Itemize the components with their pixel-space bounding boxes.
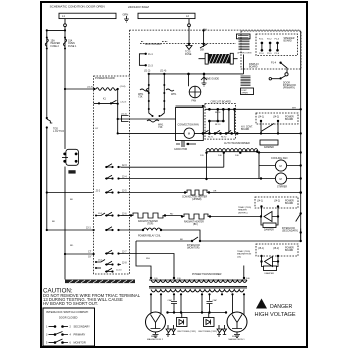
bottom coil	[152, 115, 154, 117]
svg-text:FUSE 1: FUSE 1	[68, 45, 77, 48]
svg-text:240/120V 60HZ: 240/120V 60HZ	[128, 5, 149, 9]
svg-text:POWER TRANSFORMER: POWER TRANSFORMER	[192, 273, 222, 276]
svg-text:(UPPER): (UPPER)	[192, 199, 202, 201]
svg-text:INTERLOCK SWITCH COMPATI: INTERLOCK SWITCH COMPATI	[46, 310, 88, 314]
svg-text:FRONT: FRONT	[232, 336, 240, 338]
svg-text:!: !	[260, 304, 262, 310]
svg-text:RLY3: RLY3	[215, 124, 221, 126]
transformer primary winding	[151, 280, 247, 282]
svg-text:P2-2: P2-2	[267, 38, 272, 40]
secondary tap dots	[150, 293, 152, 295]
heater bar hatched	[65, 280, 135, 284]
relay coil winding	[96, 88, 117, 91]
circuit board dashed box	[205, 104, 236, 140]
svg-text:FUSE 2: FUSE 2	[51, 45, 60, 48]
lower switch stack 1	[111, 214, 113, 216]
junction on top edge	[202, 29, 204, 31]
svg-text:RLY2: RLY2	[221, 137, 227, 139]
right bus lower	[300, 233, 302, 242]
svg-text:CT: CT	[88, 251, 92, 254]
svg-text:(J4-2): (J4-2)	[273, 117, 279, 119]
svg-text:H.V. CONT.: H.V. CONT.	[241, 127, 253, 129]
svg-text:WH: WH	[146, 258, 150, 260]
radiant heater top	[121, 215, 131, 217]
row1 relay dots	[208, 108, 211, 111]
svg-text:TRIAC (TRD): TRIAC (TRD)	[238, 206, 251, 209]
fuse HEATER FUSE 2	[46, 37, 48, 39]
svg-text:SECONDARY: SECONDARY	[74, 324, 91, 328]
svg-text:DAMPER: DAMPER	[265, 272, 275, 275]
svg-text:M: M	[280, 177, 282, 181]
svg-text:REAR: REAR	[151, 335, 157, 338]
transformer primary top line	[149, 279, 247, 281]
right inner column wire	[117, 89, 119, 133]
left bus wire 2 (L1b)	[64, 30, 66, 149]
power board dashed box	[94, 76, 130, 274]
radiant heater rear	[165, 215, 182, 217]
ground magnetron 1	[234, 332, 240, 338]
svg-text:P2-1: P2-1	[259, 38, 264, 40]
svg-text:SPEAKER: SPEAKER	[284, 37, 295, 40]
door interlock primary switch	[281, 63, 287, 73]
verticals	[209, 109, 234, 133]
svg-text:BOARD: BOARD	[284, 40, 293, 43]
svg-text:(TOP): (TOP)	[147, 224, 153, 226]
svg-text:P2-5: P2-5	[267, 53, 272, 55]
svg-text:DANGER: DANGER	[270, 304, 292, 310]
svg-text:HEATER: HEATER	[238, 209, 247, 212]
connector J1-7 bracket	[122, 116, 129, 122]
connector circle on L1 lead	[64, 24, 67, 27]
long wire row y132	[118, 132, 301, 134]
wire top jumper	[47, 29, 65, 31]
svg-text:WH: WH	[203, 29, 207, 31]
junction	[46, 29, 48, 31]
svg-text:CONVECTION FAN: CONVECTION FAN	[178, 124, 200, 127]
relay contacts under J4 box	[261, 121, 278, 133]
fuse OVEN FUSE 1	[64, 37, 66, 39]
wire from autotransformer to right bus	[257, 152, 301, 154]
connector J1-1	[145, 53, 147, 55]
danger triangle	[256, 299, 267, 309]
svg-text:RADIANT HEATER: RADIANT HEATER	[184, 221, 204, 224]
svg-text:MONITOR: MONITOR	[74, 340, 86, 344]
svg-text:INTERLOCK: INTERLOCK	[283, 85, 297, 87]
svg-text:L.OV TCO: L.OV TCO	[53, 130, 64, 133]
terminal block L1	[59, 13, 116, 18]
svg-text:FUSE: FUSE	[185, 53, 192, 56]
wire left bus to J2-1	[47, 229, 94, 231]
svg-text:DOOR CLOSED: DOOR CLOSED	[59, 317, 78, 320]
svg-text:RLY1: RLY1	[208, 137, 214, 139]
svg-text:P2-6: P2-6	[275, 53, 280, 55]
power board dashed box 2	[255, 197, 298, 208]
coil right	[166, 89, 174, 91]
bus L1b continues	[64, 167, 66, 280]
svg-text:STIRRER: STIRRER	[277, 187, 287, 189]
power board inner dashed box right	[256, 113, 298, 124]
wire L1 down	[64, 19, 66, 31]
capacitor left	[176, 141, 196, 147]
convection heater element	[185, 190, 209, 195]
monitor line	[136, 240, 301, 242]
svg-text:MAIN BOARD: MAIN BOARD	[145, 42, 162, 46]
border frame	[41, 2, 307, 347]
hv bus	[167, 312, 227, 314]
selector contacts 3	[111, 191, 113, 193]
selector contacts 1	[111, 166, 113, 168]
damper box	[260, 140, 278, 145]
svg-text:WH: WH	[292, 107, 296, 109]
thermistor	[202, 43, 204, 45]
svg-text:(J1-7): (J1-7)	[121, 102, 127, 104]
svg-text:HV BOARD TO SHORT OUT.: HV BOARD TO SHORT OUT.	[43, 301, 98, 306]
svg-text:(J5-1): (J5-1)	[258, 248, 264, 250]
svg-text:P1-4: P1-4	[271, 62, 277, 65]
svg-text:INTERLOCK: INTERLOCK	[187, 245, 201, 247]
svg-text:J2-3: J2-3	[122, 165, 127, 167]
svg-text:J2-8: J2-8	[122, 263, 127, 265]
filament leads magnetron 1	[233, 294, 245, 314]
svg-text:MAGNETRON 2: MAGNETRON 2	[147, 338, 164, 341]
thermal cutout TCO in left bus	[46, 117, 48, 119]
left bus wire (L1a)	[46, 30, 48, 118]
row2	[209, 120, 223, 122]
svg-text:POWER: POWER	[285, 201, 294, 203]
svg-text:CIRCUIT BOARD: CIRCUIT BOARD	[211, 100, 232, 104]
svg-text:(J4-2): (J4-2)	[274, 201, 280, 203]
autotransformer base wire	[206, 151, 257, 153]
display board dashed box	[241, 31, 301, 69]
svg-text:BU: BU	[245, 151, 248, 153]
svg-text:GRN: GRN	[123, 13, 129, 17]
main board dashed left edge	[129, 30, 131, 76]
svg-text:OR: OR	[213, 191, 217, 193]
rectifier box CW2	[208, 313, 210, 318]
svg-text:AUTO TRANSFORMER: AUTO TRANSFORMER	[224, 142, 250, 145]
svg-text:SCHEMATIC CONDITION: DOOR OPEN: SCHEMATIC CONDITION: DOOR OPEN	[50, 5, 105, 9]
svg-text:J2-10: J2-10	[116, 270, 122, 272]
blower motor	[275, 173, 286, 184]
wire net 13 to transformer	[243, 266, 245, 279]
cooling fan motor	[275, 160, 286, 171]
svg-text:RD: RD	[70, 245, 74, 247]
display transformer winding	[241, 76, 251, 86]
wire N1	[65, 88, 96, 90]
svg-text:(J1-4): (J1-4)	[160, 70, 166, 73]
triac lower-left cluster	[260, 215, 262, 217]
magnetron 1	[227, 312, 247, 332]
svg-text:UPPER OVEN: UPPER OVEN	[237, 53, 252, 55]
wire upper oven sensor to fan line	[243, 55, 245, 74]
svg-text:XFMR: XFMR	[242, 93, 249, 95]
svg-text:M: M	[280, 164, 282, 168]
svg-text:POWER: POWER	[285, 248, 294, 250]
svg-text:CAP: CAP	[168, 299, 173, 302]
wire to thermistor	[203, 30, 205, 44]
svg-text:Y2K: Y2K	[158, 126, 163, 129]
wires J4 to triac1	[262, 207, 279, 217]
svg-text:POWER: POWER	[285, 117, 294, 119]
svg-text:COOLING FAN: COOLING FAN	[271, 157, 288, 160]
svg-text:FAN: FAN	[192, 100, 197, 103]
svg-text:P2-4: P2-4	[259, 53, 264, 55]
svg-text:(BK): (BK)	[193, 224, 198, 226]
dashed link	[223, 153, 225, 168]
svg-text:CAPACITOR: CAPACITOR	[174, 148, 188, 151]
svg-text:PRIMARY: PRIMARY	[74, 332, 86, 336]
svg-text:BOARD: BOARD	[249, 66, 258, 69]
connector J1-3	[145, 64, 147, 66]
svg-text:J2-2: J2-2	[96, 191, 101, 193]
transformer feed left	[136, 241, 151, 278]
switch stack rows 4-5	[111, 252, 113, 254]
transformer core	[149, 287, 247, 288]
svg-text:DAMPER: DAMPER	[264, 229, 274, 232]
relay ladder left wire	[149, 74, 165, 116]
svg-text:CHECK: CHECK	[69, 172, 77, 174]
svg-text:30K: 30K	[200, 49, 205, 52]
svg-text:DAMPER: DAMPER	[264, 146, 274, 149]
selector contacts 2	[111, 177, 113, 179]
heating element hatched top	[199, 58, 238, 60]
svg-text:MAGNETRON 1: MAGNETRON 1	[229, 338, 246, 341]
svg-text:(J1-2): (J1-2)	[144, 70, 150, 73]
svg-text:(J5-2): (J5-2)	[273, 248, 279, 250]
filament leads magnetron 2	[151, 294, 161, 313]
magnetron 2	[146, 312, 166, 332]
interlock secondary switch	[300, 212, 302, 214]
junction	[64, 29, 66, 31]
svg-text:TRIAC (TRD): TRIAC (TRD)	[237, 250, 250, 253]
svg-text:(J4-1): (J4-1)	[257, 201, 263, 203]
power relay coil	[143, 228, 161, 230]
cap drop 1	[171, 294, 177, 312]
svg-text:J1-1: J1-1	[148, 53, 153, 56]
svg-text:GY: GY	[88, 256, 92, 259]
convection fan box	[176, 108, 204, 141]
power relay (check relay) box	[66, 149, 79, 165]
primary tap dots	[150, 277, 152, 279]
row3	[202, 132, 205, 135]
transformer secondary winding	[151, 290, 244, 292]
filled text box	[237, 34, 251, 39]
wire row y109	[205, 108, 301, 110]
interlock table box	[43, 308, 95, 346]
svg-text:CAP: CAP	[213, 299, 218, 302]
zener pair left	[166, 325, 171, 336]
svg-text:RADIANT HEATER: RADIANT HEATER	[138, 220, 158, 223]
svg-text:(SECONDARY): (SECONDARY)	[282, 230, 298, 233]
waveguide antenna	[201, 77, 207, 86]
wire J2 row	[47, 192, 93, 194]
junction J2-9	[93, 88, 95, 90]
power relay coil wire	[111, 229, 113, 231]
svg-text:CONVECTION HEATER: CONVECTION HEATER	[182, 196, 207, 199]
svg-text:BOARD: BOARD	[285, 249, 294, 252]
coil stack	[239, 40, 250, 50]
auto transformer winding	[206, 149, 258, 152]
connector circle on L2 lead	[188, 24, 191, 27]
J3 stubs on power board left box	[95, 215, 97, 217]
cap drop 2	[207, 294, 213, 312]
transformer label box	[241, 88, 254, 95]
rectifier box CW1	[181, 313, 183, 318]
svg-text:RD: RD	[170, 214, 174, 216]
svg-text:(J4-1): (J4-1)	[258, 117, 264, 119]
svg-text:POWER RELAY COIL: POWER RELAY COIL	[138, 235, 161, 238]
snubber box	[263, 223, 276, 228]
snubber box 2	[264, 266, 277, 271]
svg-text:(MONITOR): (MONITOR)	[187, 248, 200, 250]
svg-text:POWER BOARD: POWER BOARD	[95, 76, 115, 80]
svg-text:J2-1: J2-1	[86, 227, 91, 230]
dashed inner line	[140, 43, 236, 45]
ground	[124, 16, 129, 22]
svg-text:MAGNETRON: MAGNETRON	[237, 253, 252, 256]
svg-text:P2-3: P2-3	[275, 38, 280, 40]
svg-text:HIGH VOLTAGE: HIGH VOLTAGE	[255, 312, 296, 318]
svg-text:BOARD: BOARD	[241, 128, 250, 131]
svg-text:(INTRFC): (INTRFC)	[238, 212, 248, 214]
svg-text:(PRIMARY): (PRIMARY)	[283, 87, 295, 90]
svg-text:(J1-8): (J1-8)	[120, 86, 126, 88]
ground magnetron 2	[153, 332, 159, 338]
svg-text:Y2K: Y2K	[138, 96, 143, 99]
svg-text:GY: GY	[95, 128, 99, 130]
fan line y73	[149, 73, 244, 75]
svg-text:J1-3: J1-3	[148, 65, 153, 68]
door board dashed box	[256, 244, 298, 256]
svg-text:BOARD: BOARD	[285, 118, 294, 121]
hv drops	[181, 294, 202, 312]
svg-text:INTERLOCK: INTERLOCK	[282, 228, 296, 230]
svg-text:WH1: WH1	[171, 93, 177, 96]
svg-text:(13): (13)	[237, 256, 241, 258]
TCO fuse symbol	[188, 43, 190, 45]
main board dashed top edge	[129, 29, 300, 31]
svg-text:BOARD: BOARD	[285, 202, 294, 205]
coil left	[146, 88, 149, 92]
svg-text:(J2-9): (J2-9)	[87, 87, 93, 89]
svg-text:DOOR: DOOR	[283, 82, 290, 84]
wire to J2	[65, 253, 94, 255]
terminal block L2	[138, 13, 195, 18]
svg-text:RECTIFIER (CW2): RECTIFIER (CW2)	[199, 331, 218, 333]
encoder board dashed box	[256, 34, 298, 56]
selector contact J2-10	[105, 270, 107, 272]
interlock monitor switch	[191, 240, 193, 242]
svg-text:(J1-6): (J1-6)	[121, 114, 127, 116]
svg-text:RECTIFIER (CW1): RECTIFIER (CW1)	[178, 331, 197, 333]
wire L2 down	[188, 19, 190, 44]
svg-text:WAVE GUIDE: WAVE GUIDE	[204, 78, 219, 81]
stirrer fan motor	[189, 74, 205, 86]
triac 2 cluster	[260, 255, 262, 257]
right bus	[300, 31, 302, 241]
zener pair right	[217, 325, 222, 336]
